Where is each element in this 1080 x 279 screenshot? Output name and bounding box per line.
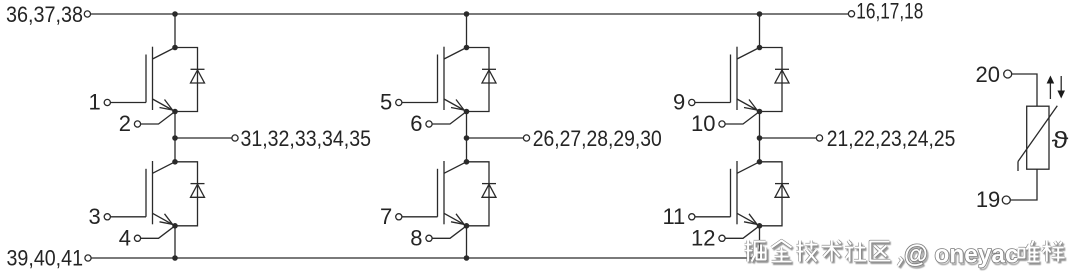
svg-text:20: 20 — [976, 62, 1000, 87]
svg-text:4: 4 — [119, 225, 131, 250]
wire emitter to phase node leg 2 — [466, 112, 468, 139]
gate lead pin 1 — [104, 99, 146, 105]
node DC+ junction leg 1 — [172, 11, 178, 17]
wire emitter to phase node leg 1 — [174, 112, 176, 139]
transistor Q6 (IGBT) — [731, 161, 760, 226]
wire emitter to DC- leg 1 — [174, 226, 176, 258]
auxiliary emitter lead pin 4 — [134, 226, 175, 242]
wire DC+ to collector leg 2 — [466, 14, 468, 48]
node collector lower leg 1 — [172, 159, 178, 165]
svg-text:11: 11 — [662, 204, 685, 229]
transistor Q1 (IGBT) — [146, 47, 175, 112]
terminal 26,27,28,29,30 — [523, 135, 529, 141]
wire phase output lead leg 2 — [467, 137, 524, 139]
svg-text:8: 8 — [410, 225, 422, 250]
watermark 掘金技术社区 @ oneyac唯样 — [745, 241, 1067, 271]
wire thermistor to pin 19 — [1010, 169, 1037, 200]
svg-text:12: 12 — [691, 225, 715, 250]
gate lead pin 7 — [396, 214, 438, 220]
svg-text:1: 1 — [89, 90, 101, 115]
label theta — [1052, 128, 1069, 154]
svg-text:26,27,28,29,30: 26,27,28,29,30 — [533, 126, 662, 151]
svg-text:39,40,41: 39,40,41 — [7, 246, 84, 271]
terminal 21,22,23,24,25 — [816, 135, 822, 141]
diode D6 (freewheel) — [760, 162, 790, 226]
node DC+ junction leg 3 — [757, 11, 763, 17]
wire DC- bottom rail — [91, 257, 759, 259]
down arrow — [1057, 76, 1065, 99]
diode D3 (freewheel) — [467, 48, 497, 112]
auxiliary emitter lead pin 12 — [719, 226, 760, 242]
transistor Q5 (IGBT) — [731, 47, 760, 112]
svg-text:@ oneyac: @ oneyac — [904, 241, 1019, 269]
node collector lower leg 2 — [464, 159, 470, 165]
wire DC+ to collector leg 3 — [759, 14, 761, 48]
svg-text:36,37,38: 36,37,38 — [6, 2, 83, 27]
terminal 20 — [1004, 70, 1012, 78]
terminal 36,37,38 — [84, 11, 90, 17]
wire phase to lower collector leg 3 — [759, 138, 761, 162]
diode D2 (freewheel) — [175, 162, 205, 226]
wire emitter to DC- leg 2 — [466, 226, 468, 258]
svg-text:ϑ: ϑ — [1052, 128, 1069, 154]
node emitter upper leg 1 — [172, 109, 178, 115]
wire phase to lower collector leg 1 — [174, 138, 176, 162]
svg-text:2: 2 — [119, 111, 131, 136]
auxiliary emitter lead pin 6 — [426, 112, 467, 128]
up arrow — [1047, 76, 1055, 100]
wire DC+ to collector leg 1 — [174, 14, 176, 48]
terminal 31,32,33,34,35 — [232, 135, 238, 141]
node collector lower leg 3 — [757, 159, 763, 165]
diode D1 (freewheel) — [175, 48, 205, 112]
gate lead pin 9 — [689, 99, 731, 105]
node phase output leg 2 — [464, 135, 470, 141]
wire phase output lead leg 1 — [175, 137, 232, 139]
terminal 39,40,41 — [85, 255, 91, 261]
svg-text:5: 5 — [380, 90, 392, 115]
node emitter upper leg 2 — [464, 109, 470, 115]
node collector upper leg 3 — [757, 45, 763, 51]
terminal 16,17,18 — [848, 11, 854, 17]
svg-text:31,32,33,34,35: 31,32,33,34,35 — [241, 126, 372, 151]
node DC- junction leg 1 — [172, 255, 178, 261]
gate lead pin 3 — [104, 214, 146, 220]
thermistor R(NTC) body — [1018, 106, 1057, 171]
node collector upper leg 2 — [464, 45, 470, 51]
svg-text:9: 9 — [673, 90, 685, 115]
auxiliary emitter lead pin 2 — [134, 112, 175, 128]
node DC+ junction leg 2 — [464, 11, 470, 17]
node DC- junction leg 2 — [464, 255, 470, 261]
svg-text:6: 6 — [410, 111, 422, 136]
wire emitter to DC- leg 3 — [759, 226, 761, 258]
auxiliary emitter lead pin 8 — [426, 226, 467, 242]
wire phase output lead leg 3 — [760, 137, 817, 139]
gate lead pin 11 — [689, 214, 731, 220]
auxiliary emitter lead pin 10 — [719, 112, 760, 128]
svg-text:3: 3 — [89, 204, 101, 229]
terminal 19 — [1002, 196, 1010, 204]
node phase output leg 1 — [172, 135, 178, 141]
wire phase to lower collector leg 2 — [466, 138, 468, 162]
node emitter lower leg 2 — [464, 223, 470, 229]
diode D5 (freewheel) — [760, 48, 790, 112]
transistor Q2 (IGBT) — [146, 161, 175, 226]
svg-text:7: 7 — [380, 204, 392, 229]
svg-text:21,22,23,24,25: 21,22,23,24,25 — [827, 126, 956, 151]
svg-text:16,17,18: 16,17,18 — [856, 0, 923, 24]
svg-text:10: 10 — [691, 111, 715, 136]
node collector upper leg 1 — [172, 45, 178, 51]
diode D4 (freewheel) — [467, 162, 497, 226]
wire emitter to phase node leg 3 — [759, 112, 761, 139]
wire DC+ top rail — [91, 13, 849, 15]
transistor Q3 (IGBT) — [438, 47, 467, 112]
node emitter upper leg 3 — [757, 109, 763, 115]
wire pin 20 to thermistor — [1012, 74, 1037, 106]
gate lead pin 5 — [396, 99, 438, 105]
svg-text:19: 19 — [976, 187, 1000, 212]
node emitter lower leg 3 — [757, 223, 763, 229]
transistor Q4 (IGBT) — [438, 161, 467, 226]
node phase output leg 3 — [757, 135, 763, 141]
node emitter lower leg 1 — [172, 223, 178, 229]
